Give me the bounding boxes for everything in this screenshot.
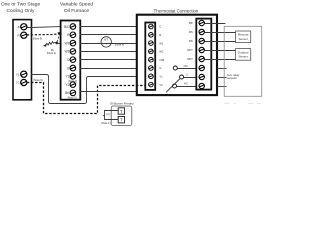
furnace terminal O	[67, 57, 76, 63]
wire R dashed: condenser R to furnace R	[27, 33, 60, 35]
aux output stub NC	[217, 86, 227, 88]
wire R row	[80, 34, 137, 36]
svg-text:Y1: Y1	[159, 75, 163, 79]
accessories enclosure	[224, 26, 262, 96]
svg-text:Oil Furnace: Oil Furnace	[64, 8, 90, 14]
svg-text:ODT: ODT	[187, 57, 193, 61]
right terminal BK	[189, 20, 204, 25]
aux relay switch arm	[166, 79, 180, 93]
remote sensor box	[236, 31, 251, 43]
right terminal RS1	[189, 29, 204, 34]
svg-text:(Note 6): (Note 6)	[33, 37, 43, 41]
svg-text:RS: RS	[189, 39, 193, 43]
svg-text:ODT: ODT	[187, 48, 193, 52]
relay arrow to R	[57, 34, 60, 42]
svg-text:(Note 4): (Note 4)	[47, 51, 57, 55]
wire BK to accessories	[205, 23, 226, 25]
wire C: condenser C to furnace B/C	[27, 26, 60, 29]
svg-text:W2: W2	[65, 50, 70, 54]
svg-text:Oil Burner Primary: Oil Burner Primary	[110, 102, 134, 106]
furnace terminal Y2	[65, 82, 75, 88]
oil furnace box	[61, 21, 81, 100]
right terminal ODT2	[187, 56, 205, 61]
faint artifact dashes	[225, 103, 262, 105]
svg-text:Variable Speed: Variable Speed	[60, 2, 93, 8]
condenser unit box	[13, 20, 32, 100]
oil burner primary	[101, 102, 134, 126]
thermostat terminal C	[149, 24, 162, 29]
svg-text:Sensor: Sensor	[238, 55, 248, 59]
svg-text:(Note 6): (Note 6)	[33, 78, 43, 82]
wire BK row	[80, 91, 137, 93]
svg-text:(Note 5): (Note 5)	[67, 97, 76, 100]
right terminal NO	[199, 65, 204, 70]
right terminal C	[199, 74, 204, 79]
thermostat terminal O/B	[149, 57, 165, 62]
svg-text:O/B: O/B	[159, 58, 164, 62]
aux relay switch: C contact	[180, 73, 202, 80]
svg-text:(Note 4): (Note 4)	[115, 43, 125, 47]
svg-text:Y1: Y1	[16, 72, 20, 76]
aux output stub NO	[217, 68, 227, 70]
svg-text:W2: W2	[159, 50, 164, 54]
svg-text:outputs: outputs	[227, 76, 237, 80]
wire B/C row	[80, 26, 137, 28]
wire W2 row	[80, 51, 137, 53]
T-T jumper	[105, 111, 119, 120]
wire Y2 dashed: condenser Y2 routed under furnace to thermostat Y2	[27, 83, 149, 114]
thermostat left terminal strip	[145, 23, 155, 90]
svg-text:Y1: Y1	[65, 75, 69, 79]
wire Y1: condenser Y1 routed under furnace to thermostat Y1	[31, 75, 137, 104]
thermostat terminal Y1	[149, 74, 164, 79]
wire RS1 to remote sensor	[205, 32, 236, 34]
svg-text:B: B	[18, 25, 20, 29]
svg-text:(A): (A)	[106, 112, 110, 116]
relay Ry zigzag arrow toward W1 dot	[43, 42, 56, 55]
svg-text:G: G	[159, 66, 161, 70]
inline device BT on W1 wire	[101, 37, 124, 47]
thermostat terminal W1	[149, 41, 164, 46]
svg-text:W1: W1	[159, 41, 164, 45]
aux relay switch: NC contact	[173, 81, 202, 88]
wire G row	[80, 68, 137, 70]
svg-text:Sensor: Sensor	[238, 37, 248, 41]
furnace terminal W2	[65, 49, 76, 55]
furnace terminal BK	[65, 90, 77, 100]
svg-text:C: C	[159, 25, 161, 29]
thermostat terminal W2	[149, 49, 164, 54]
svg-text:Y2: Y2	[16, 81, 20, 85]
outdoor sensor box	[236, 49, 251, 61]
svg-text:Y2: Y2	[159, 83, 163, 87]
right terminal ODT1	[187, 47, 205, 52]
furnace terminal B/C	[64, 24, 76, 30]
svg-text:BK: BK	[189, 21, 193, 25]
thermostat connection box	[137, 15, 217, 95]
wire ODT2 to outdoor sensor	[205, 59, 236, 61]
svg-text:T: T	[120, 118, 123, 123]
terminal Y1 condenser	[16, 71, 27, 77]
thermostat right terminal strip	[196, 19, 211, 90]
wire O row	[80, 59, 137, 61]
title: Variable Speed Oil Furnace	[60, 2, 93, 14]
aux relay switch: NO contact	[173, 64, 201, 70]
svg-text:B/C: B/C	[64, 25, 70, 29]
right terminal NC	[199, 83, 204, 88]
svg-text:Y2: Y2	[65, 83, 69, 87]
svg-text:W1: W1	[65, 41, 70, 45]
furnace terminal R	[67, 32, 76, 38]
wire W1 row	[80, 43, 137, 45]
junction dot on W1 wire	[56, 42, 59, 45]
title: One or Two Stage Cooling Only	[1, 2, 41, 14]
svg-text:BT: BT	[104, 37, 108, 41]
svg-text:NC: NC	[184, 81, 188, 85]
arrowhead at furnace R	[57, 32, 61, 35]
terminal C condenser	[18, 24, 27, 30]
svg-text:C: C	[186, 73, 188, 77]
svg-text:Cooling Only: Cooling Only	[7, 8, 36, 14]
furnace terminal G	[67, 65, 76, 71]
thermostat terminal Y2	[149, 82, 164, 87]
wire ODT1 to outdoor sensor	[205, 50, 236, 52]
terminal R condenser	[17, 32, 26, 38]
thermostat terminal G	[149, 66, 162, 71]
terminal Y2 condenser	[16, 79, 27, 85]
wire RS2 to remote sensor	[205, 41, 236, 43]
furnace terminal Y1	[65, 74, 77, 84]
thermostat terminal R	[149, 33, 162, 38]
T2 terminal	[118, 117, 124, 123]
svg-text:One or Two Stage: One or Two Stage	[1, 2, 41, 8]
T1 terminal	[118, 108, 124, 114]
svg-text:R: R	[159, 33, 161, 37]
svg-text:T: T	[120, 109, 123, 114]
right terminal RS2	[189, 38, 204, 43]
aux output stub C	[217, 77, 227, 79]
furnace terminal W1	[65, 40, 76, 46]
svg-text:(Note 1): (Note 1)	[101, 121, 111, 125]
svg-text:Thermostat Connection: Thermostat Connection	[154, 8, 199, 13]
svg-text:RS: RS	[189, 30, 193, 34]
